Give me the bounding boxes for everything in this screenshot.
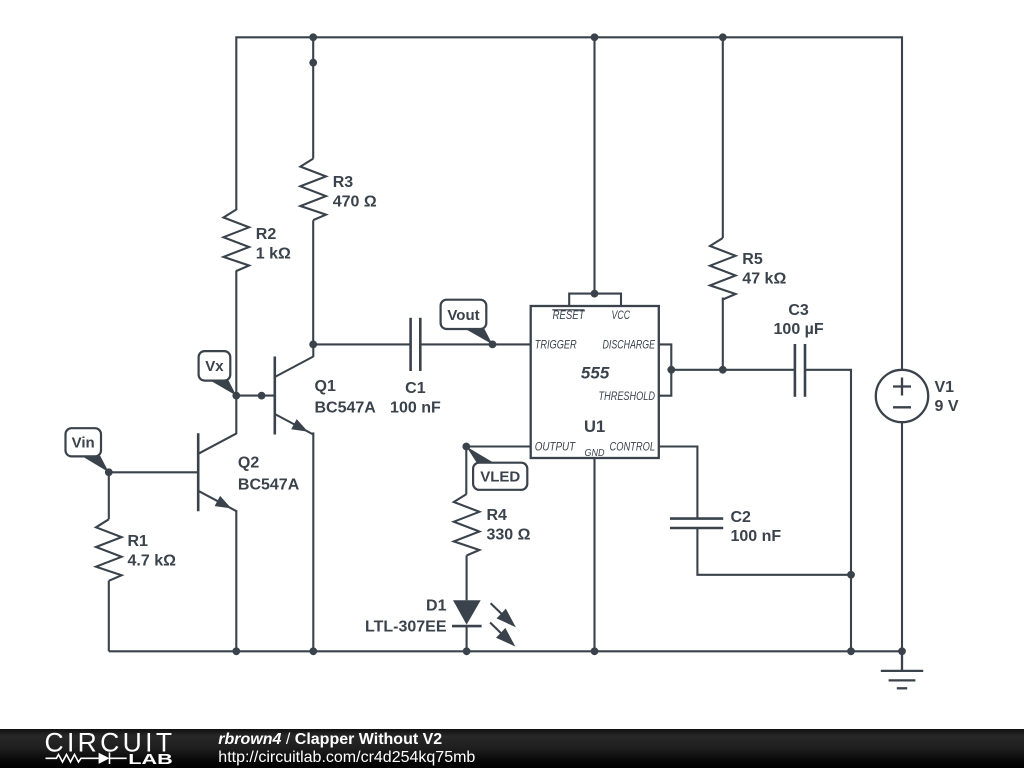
svg-text:VLED: VLED xyxy=(480,469,520,486)
node flag VLED xyxy=(466,447,497,465)
junction R3 segment xyxy=(309,59,317,67)
svg-text:330 Ω: 330 Ω xyxy=(487,526,531,543)
wire Q2 emitter drop xyxy=(235,510,237,651)
wire 555 VCC supply drop xyxy=(593,37,595,293)
node flag Vin xyxy=(79,450,109,473)
junction discharge-threshold tie xyxy=(667,366,675,374)
wire R5 bottom to discharge net xyxy=(722,298,724,370)
svg-text:TRIGGER: TRIGGER xyxy=(535,338,577,352)
wire R3 top branch xyxy=(312,37,314,158)
resistor R1 xyxy=(96,519,122,581)
junction node Vin xyxy=(105,468,113,476)
svg-text:Q1: Q1 xyxy=(315,378,336,395)
junction reset-vcc tie xyxy=(591,290,599,298)
svg-text:C3: C3 xyxy=(788,302,809,319)
resistor R2 xyxy=(224,210,250,272)
svg-text:Q2: Q2 xyxy=(238,455,259,472)
junction C2 ground drop xyxy=(847,571,855,579)
svg-text:CONTROL: CONTROL xyxy=(610,440,656,454)
svg-text:555: 555 xyxy=(581,364,610,383)
wire R2 bottom to node Vx xyxy=(235,271,237,396)
svg-text:http://circuitlab.com/cr4d254k: http://circuitlab.com/cr4d254kq75mb xyxy=(218,749,475,766)
wire C2 bottom to ground drop xyxy=(697,528,851,575)
junction D1 ground xyxy=(463,647,471,655)
transistor Q2 emitter arrow xyxy=(215,496,232,509)
junction Q1 emitter ground xyxy=(309,647,317,655)
junction R5 rail xyxy=(719,33,727,41)
junction node VLED xyxy=(462,443,470,451)
junction Q2 emitter ground xyxy=(232,647,240,655)
transistor Q1 emitter arrow xyxy=(291,419,308,432)
svg-text:THRESHOLD: THRESHOLD xyxy=(599,389,656,403)
wire R1 to ground rail xyxy=(108,581,110,652)
node flag Vx xyxy=(207,374,236,396)
wire node VLED to R4 xyxy=(465,447,467,495)
svg-text:100 µF: 100 µF xyxy=(774,321,824,338)
svg-text:1 kΩ: 1 kΩ xyxy=(256,245,291,262)
resistor R5 xyxy=(710,238,736,300)
svg-text:C2: C2 xyxy=(731,509,752,526)
svg-text:100 nF: 100 nF xyxy=(731,528,782,545)
svg-text:100 nF: 100 nF xyxy=(390,400,441,417)
svg-text:47 kΩ: 47 kΩ xyxy=(742,270,786,287)
svg-text:V1: V1 xyxy=(935,379,955,396)
svg-text:Vin: Vin xyxy=(72,435,95,452)
wire Q2 collector riser xyxy=(235,396,237,434)
junction R3 top rail xyxy=(309,33,317,41)
svg-text:Vx: Vx xyxy=(205,358,224,375)
svg-text:DISCHARGE: DISCHARGE xyxy=(603,338,656,352)
wire C3 right down to ground rail xyxy=(805,370,851,652)
wire 555 OUTPUT to node VLED xyxy=(466,445,530,447)
capacitor C2 100 nF xyxy=(670,519,723,528)
wire R4 to D1 xyxy=(466,556,468,601)
junction node Vout xyxy=(489,341,497,349)
wire ground rail xyxy=(109,650,903,652)
svg-text:4.7 kΩ: 4.7 kΩ xyxy=(128,552,177,569)
svg-text:R2: R2 xyxy=(256,226,277,243)
junction node Vx xyxy=(232,392,240,400)
footer bar xyxy=(0,729,1024,768)
wire D1 to ground rail xyxy=(466,626,468,651)
U1 discharge-threshold tie bracket xyxy=(659,344,672,395)
svg-text:VCC: VCC xyxy=(612,308,631,322)
voltage source V1 9V xyxy=(876,370,928,422)
svg-text:R5: R5 xyxy=(742,251,763,268)
svg-text:R1: R1 xyxy=(128,533,149,550)
svg-text:GND: GND xyxy=(585,447,605,459)
wire R5 top drop xyxy=(722,37,724,238)
CircuitLab logo circuit glyph (resistor + diode) xyxy=(46,753,127,765)
U1 reset-vcc tie bracket xyxy=(569,294,621,306)
wire Q1 emitter drop xyxy=(312,432,314,651)
svg-text:C1: C1 xyxy=(405,380,426,397)
junction 555 GND ground xyxy=(591,647,599,655)
capacitor C1 100 nF xyxy=(411,318,421,371)
LED D1 LTL-307EE xyxy=(453,600,481,624)
wire Vin node to Q2 base xyxy=(109,471,198,473)
svg-text:D1: D1 xyxy=(426,598,447,615)
wire top supply rail xyxy=(236,37,902,369)
transistor Q1 (BC547A) xyxy=(275,357,314,435)
svg-text:Vout: Vout xyxy=(447,307,479,324)
wire C1 to 555 TRIGGER xyxy=(420,343,530,345)
svg-text:U1: U1 xyxy=(584,418,605,436)
wire V1 bottom lead xyxy=(901,422,903,651)
junction C3 ground xyxy=(847,647,855,655)
svg-text:OUTPUT: OUTPUT xyxy=(535,440,577,454)
wire Vin node to R1 xyxy=(108,472,110,519)
svg-text:BC547A: BC547A xyxy=(238,477,300,494)
transistor Q2 (BC547A) xyxy=(198,433,237,511)
wire node Vx to Q1 base xyxy=(236,395,274,397)
wire 555 GND stub xyxy=(593,458,595,651)
svg-text:9 V: 9 V xyxy=(935,398,959,415)
LED D1 light arrow 2 xyxy=(490,623,515,647)
svg-text:LAB: LAB xyxy=(128,752,173,768)
LED D1 light arrow 1 xyxy=(491,603,516,627)
junction Q1 base segment xyxy=(258,392,266,400)
capacitor C3 100 uF xyxy=(795,344,805,397)
svg-text:rbrown4 / Clapper Without V2: rbrown4 / Clapper Without V2 xyxy=(218,731,442,748)
svg-text:BC547A: BC547A xyxy=(315,400,377,417)
svg-text:R4: R4 xyxy=(487,507,508,524)
resistor R4 xyxy=(454,494,480,556)
svg-text:470 Ω: 470 Ω xyxy=(333,194,377,211)
junction VCC rail xyxy=(591,33,599,41)
junction R5 discharge net xyxy=(719,366,727,374)
svg-text:R3: R3 xyxy=(333,174,354,191)
wire 555 CONTROL to C2 xyxy=(659,447,698,519)
junction R3 C1 Q1 collector xyxy=(309,341,317,349)
wire node to C1 xyxy=(313,343,410,345)
svg-text:LTL-307EE: LTL-307EE xyxy=(365,619,447,636)
node flag Vout xyxy=(462,323,493,345)
wire discharge net to C3 xyxy=(671,369,795,371)
wire Q1 collector riser xyxy=(312,344,314,357)
op-amp/IC U1 555 timer box xyxy=(531,306,659,458)
ground symbol xyxy=(881,651,923,688)
junction V1 ground xyxy=(898,647,906,655)
resistor R3 xyxy=(300,159,326,221)
wire R3 bottom to node xyxy=(312,220,314,344)
